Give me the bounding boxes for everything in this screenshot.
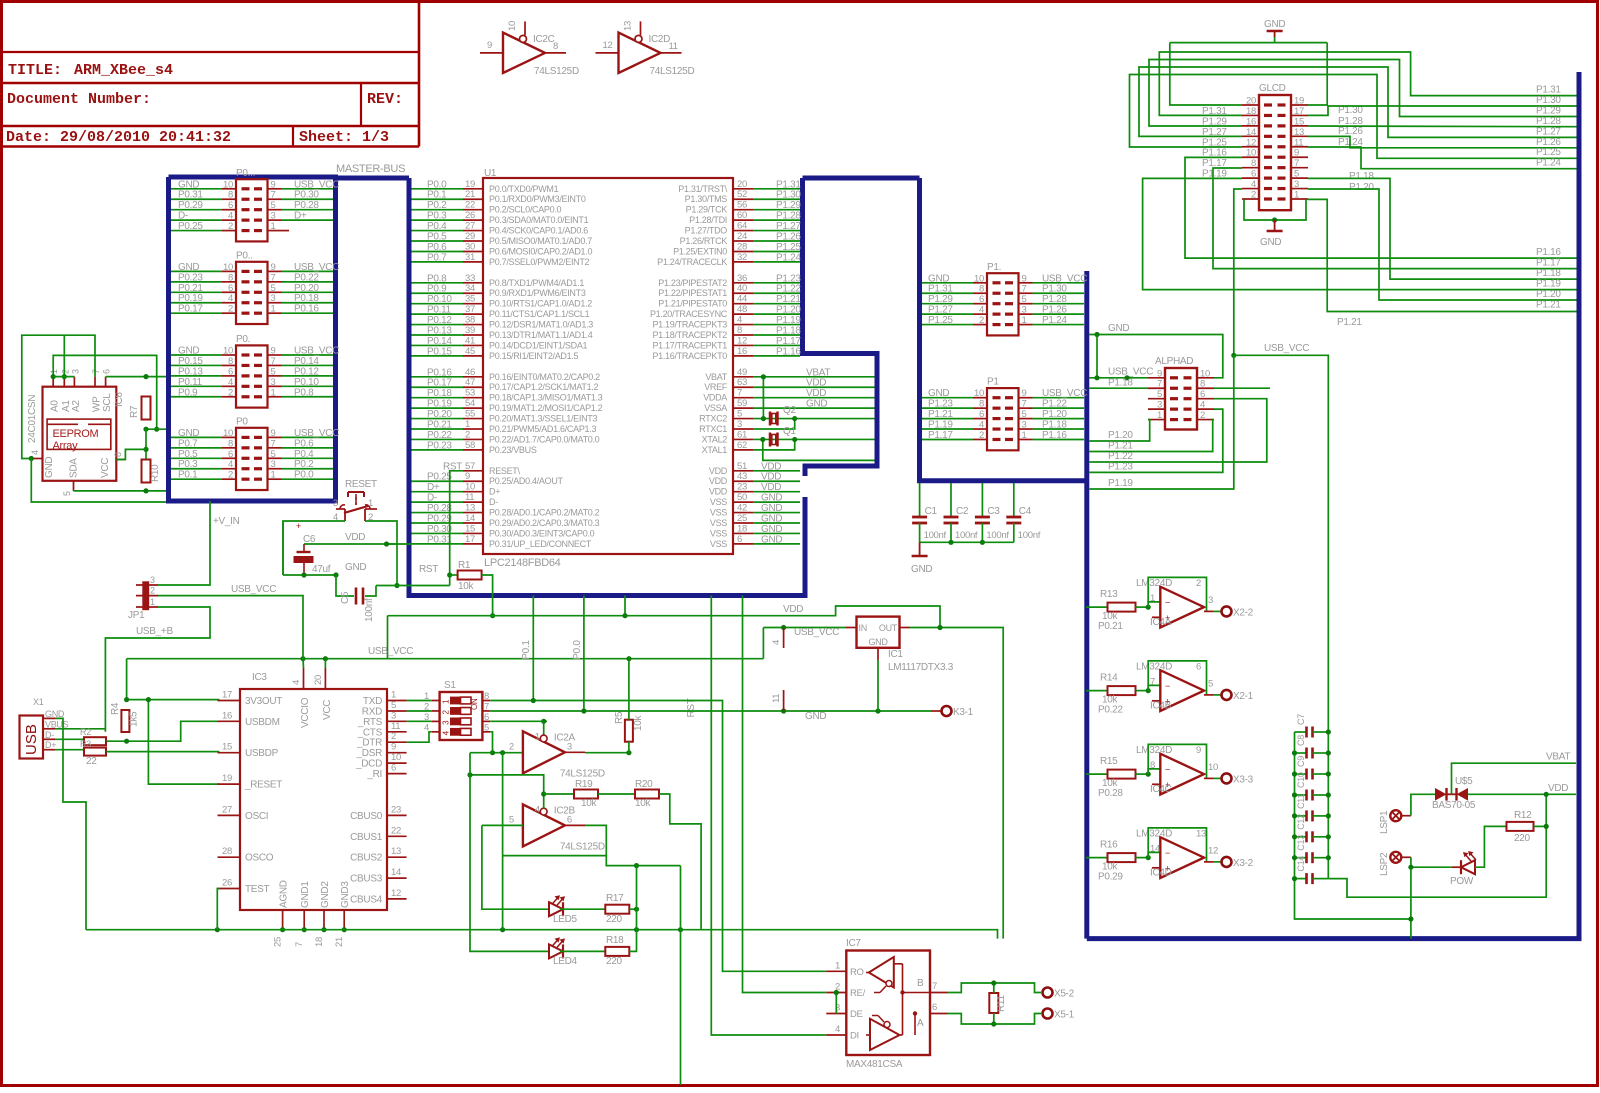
- svg-text:VSS: VSS: [710, 508, 727, 518]
- LED POW pointing left: [1461, 860, 1475, 874]
- svg-text:VCCIO: VCCIO: [300, 697, 311, 728]
- connector ALPHAD 10-pin: [1165, 368, 1197, 430]
- wire IC2B output jog down: [565, 824, 585, 826]
- svg-text:R7: R7: [129, 405, 140, 418]
- svg-text:9: 9: [271, 262, 276, 273]
- svg-text:_DTR: _DTR: [356, 738, 382, 749]
- svg-text:GND: GND: [928, 273, 949, 284]
- svg-text:P1.26: P1.26: [776, 232, 801, 243]
- U1 right pins group D VDD VSS: [733, 470, 753, 472]
- svg-text:USBDP: USBDP: [245, 748, 279, 759]
- wire POW row vertical to bus: [1410, 867, 1412, 938]
- wire S1 pin8 row TXD net: [490, 701, 826, 972]
- op-amp IC4A LM324D: [1136, 606, 1149, 608]
- svg-text:C4: C4: [1019, 506, 1032, 517]
- svg-text:P0.7/SSEL0/PWM2/EINT2: P0.7/SSEL0/PWM2/EINT2: [489, 257, 590, 267]
- svg-text:10: 10: [223, 262, 233, 273]
- svg-text:C7: C7: [1296, 714, 1306, 725]
- svg-text:18: 18: [314, 937, 325, 947]
- svg-text:R1: R1: [458, 560, 471, 571]
- svg-text:IC1: IC1: [888, 649, 903, 660]
- svg-text:P1.29/TCK: P1.29/TCK: [686, 205, 728, 215]
- svg-text:7: 7: [271, 438, 276, 449]
- svg-text:1: 1: [271, 221, 276, 232]
- wire VDD long row y616: [388, 606, 941, 628]
- svg-text:11: 11: [771, 694, 782, 703]
- svg-text:AGND: AGND: [279, 880, 290, 908]
- terminal X5-1: [1043, 1009, 1053, 1019]
- svg-text:P1.26: P1.26: [1536, 137, 1561, 148]
- svg-text:8: 8: [1150, 760, 1155, 771]
- svg-text:GND: GND: [928, 388, 949, 399]
- svg-text:8: 8: [1251, 158, 1256, 169]
- svg-text:P0.1: P0.1: [178, 470, 198, 481]
- svg-text:54: 54: [465, 398, 475, 409]
- svg-text:P1.24: P1.24: [1042, 315, 1067, 326]
- svg-text:IC3: IC3: [252, 672, 267, 683]
- svg-text:10: 10: [1246, 148, 1256, 159]
- wire VDD row right: [1468, 793, 1576, 795]
- svg-text:P1.20/TRACESYNC: P1.20/TRACESYNC: [650, 309, 728, 319]
- wire R4 top node to 3V3OUT: [127, 699, 220, 701]
- svg-text:P0.12: P0.12: [294, 366, 319, 377]
- svg-text:P0.23/VBUS: P0.23/VBUS: [489, 445, 537, 455]
- IC IC1 LM1117DTX3.3: [857, 617, 900, 648]
- wire R20 right to RST drop: [659, 794, 701, 930]
- svg-text:46: 46: [465, 367, 475, 378]
- svg-text:8: 8: [979, 284, 984, 295]
- svg-text:1: 1: [1022, 315, 1027, 326]
- svg-text:47uf: 47uf: [312, 564, 331, 575]
- svg-text:X3-2: X3-2: [1233, 858, 1254, 869]
- wire RXD to S1 pin2: [407, 710, 432, 712]
- svg-text:2: 2: [150, 586, 155, 596]
- svg-text:6: 6: [1251, 169, 1256, 180]
- svg-text:USB_VCC: USB_VCC: [1042, 273, 1087, 284]
- wire LSP2 to POW row: [1411, 857, 1452, 867]
- svg-text:P1.29: P1.29: [928, 294, 953, 305]
- wire DI drop from bus: [711, 596, 826, 1036]
- bus second vertical x=1087: [1084, 271, 1089, 939]
- wire LSP1 to diode anode: [1411, 794, 1436, 815]
- svg-text:P0.28: P0.28: [294, 200, 319, 211]
- svg-text:2: 2: [979, 315, 984, 326]
- svg-text:P0.29/AD0.2/CAP0.3/MAT0.3: P0.29/AD0.2/CAP0.3/MAT0.3: [489, 518, 600, 528]
- svg-text:22: 22: [465, 200, 475, 211]
- svg-text:P1.27: P1.27: [1536, 126, 1561, 137]
- svg-text:D-: D-: [178, 211, 188, 222]
- svg-text:GND1: GND1: [300, 881, 311, 908]
- svg-text:P0.29: P0.29: [1098, 872, 1123, 883]
- svg-text:1: 1: [1150, 593, 1155, 604]
- wire P1.28 row: [1308, 125, 1577, 128]
- svg-text:9: 9: [1022, 388, 1027, 399]
- svg-text:74LS125D: 74LS125D: [560, 841, 605, 852]
- svg-text:P1.28/TDI: P1.28/TDI: [689, 215, 727, 225]
- svg-text:6: 6: [1196, 662, 1201, 673]
- svg-text:6: 6: [484, 712, 489, 723]
- svg-text:A0: A0: [50, 400, 61, 412]
- svg-text:10k: 10k: [633, 714, 644, 731]
- wire cap stack bottom to VDD riser: [1328, 794, 1546, 897]
- capacitor C7: [1295, 731, 1307, 733]
- svg-text:1: 1: [271, 304, 276, 315]
- wire +V_IN from bus bottom to JP1 pin3: [158, 501, 210, 585]
- svg-text:_RI: _RI: [366, 769, 382, 780]
- svg-text:10k: 10k: [581, 798, 598, 809]
- svg-text:15: 15: [1294, 116, 1304, 127]
- svg-text:14: 14: [465, 513, 475, 524]
- svg-text:10: 10: [465, 482, 475, 493]
- svg-text:P1.27: P1.27: [776, 221, 801, 232]
- svg-text:SCL: SCL: [102, 393, 113, 412]
- resistor R17 220: [605, 905, 629, 914]
- svg-text:1: 1: [1157, 410, 1162, 421]
- svg-text:VDDA: VDDA: [703, 393, 727, 403]
- svg-text:D+: D+: [294, 211, 307, 222]
- svg-text:30: 30: [465, 241, 475, 252]
- svg-text:P1.31: P1.31: [1536, 85, 1561, 96]
- svg-text:P1.30/TMS: P1.30/TMS: [685, 194, 728, 204]
- svg-text:LPC2148FBD64: LPC2148FBD64: [484, 557, 561, 569]
- svg-text:P1.22/PIPESTAT1: P1.22/PIPESTAT1: [658, 288, 727, 298]
- svg-text:GND: GND: [761, 503, 782, 514]
- wire EEPROM A0 over to R7 net: [53, 355, 157, 429]
- terminal X2-2: [1222, 606, 1232, 616]
- svg-text:_DCD: _DCD: [355, 759, 382, 770]
- wire USB_VCC row to cap stack vertical: [1234, 355, 1329, 732]
- wire USB_VCC from JP1 pin2: [158, 596, 303, 659]
- wire VBAT from diode center tap: [1452, 763, 1577, 794]
- svg-text:P0.28: P0.28: [427, 503, 452, 514]
- svg-text:20: 20: [1246, 96, 1256, 107]
- wire GLCD pin4 long vertical: [1234, 189, 1242, 355]
- svg-text:42: 42: [737, 503, 747, 514]
- svg-text:IC2D: IC2D: [649, 34, 671, 45]
- svg-text:R20: R20: [635, 779, 653, 790]
- capacitor C8: [1295, 752, 1307, 754]
- svg-text:P0.25: P0.25: [427, 472, 452, 483]
- svg-text:36: 36: [737, 273, 747, 284]
- svg-text:OUT: OUT: [879, 623, 898, 633]
- svg-text:3: 3: [271, 211, 276, 222]
- wire RST vertical from RESET pin to R1: [450, 471, 463, 586]
- svg-text:1: 1: [1294, 189, 1299, 200]
- svg-text:4: 4: [291, 680, 302, 685]
- svg-text:GND: GND: [45, 709, 65, 719]
- svg-text:P1.19: P1.19: [928, 420, 953, 431]
- svg-text:P0.22: P0.22: [294, 272, 319, 283]
- wire VCC pin to R10 top: [116, 449, 146, 459]
- wire left long vertical to IC3 bottom row: [126, 659, 128, 700]
- svg-text:17: 17: [1294, 106, 1304, 117]
- svg-text:LM324D: LM324D: [1136, 745, 1172, 756]
- svg-text:VSS: VSS: [710, 518, 727, 528]
- svg-text:38: 38: [465, 315, 475, 326]
- svg-text:VDD: VDD: [761, 482, 781, 493]
- IC7 left pins RO RE DE DI: [826, 970, 846, 972]
- svg-text:C14: C14: [1296, 856, 1306, 872]
- svg-text:P0: P0: [236, 416, 248, 427]
- svg-text:R11: R11: [996, 995, 1007, 1012]
- svg-text:P0.5: P0.5: [427, 232, 447, 243]
- svg-text:100nf: 100nf: [955, 530, 978, 541]
- svg-text:19: 19: [1294, 96, 1304, 107]
- svg-text:10: 10: [223, 428, 233, 439]
- svg-text:P0.31/UP_LED/CONNECT: P0.31/UP_LED/CONNECT: [489, 539, 592, 549]
- svg-text:IC2C: IC2C: [533, 34, 555, 45]
- svg-text:4: 4: [1200, 400, 1205, 411]
- svg-text:3: 3: [737, 419, 742, 430]
- svg-text:GND: GND: [761, 493, 782, 504]
- wire EEPROM A0-A2 row: [53, 376, 74, 378]
- svg-text:7: 7: [91, 369, 101, 374]
- svg-text:7: 7: [294, 942, 305, 947]
- svg-text:220: 220: [606, 914, 623, 925]
- svg-text:Q2: Q2: [783, 405, 796, 416]
- svg-text:USB_VCC: USB_VCC: [1264, 343, 1309, 354]
- wire B to X5-2: [948, 983, 1042, 993]
- wire P1.25 staircase: [1130, 75, 1577, 159]
- wire IC4C output: [1204, 777, 1213, 779]
- svg-text:OSCO: OSCO: [245, 853, 274, 864]
- svg-text:P1.18: P1.18: [1349, 171, 1374, 182]
- svg-text:VDD: VDD: [345, 532, 365, 543]
- svg-text:MASTER-BUS: MASTER-BUS: [336, 163, 405, 175]
- svg-text:7: 7: [932, 981, 937, 992]
- svg-text:LSP2: LSP2: [1379, 852, 1390, 876]
- svg-text:XTAL2: XTAL2: [702, 434, 728, 444]
- wire RTS to S1 pin3: [407, 720, 432, 722]
- svg-text:LM324D: LM324D: [1136, 578, 1172, 589]
- svg-text:11: 11: [1294, 137, 1303, 148]
- svg-text:C5: C5: [340, 591, 351, 604]
- svg-text:6: 6: [979, 294, 984, 305]
- svg-text:P0.8: P0.8: [427, 273, 447, 284]
- wire SDA row to bus: [74, 490, 167, 492]
- svg-text:P0.29: P0.29: [178, 200, 203, 211]
- svg-text:USB_VCC: USB_VCC: [294, 179, 339, 190]
- svg-text:USB: USB: [23, 724, 40, 755]
- svg-text:XTAL1: XTAL1: [702, 445, 728, 455]
- svg-text:1: 1: [391, 690, 396, 701]
- svg-text:P1.20: P1.20: [776, 305, 801, 316]
- svg-text:19: 19: [465, 179, 475, 190]
- svg-text:C10: C10: [1296, 772, 1306, 788]
- svg-text:29: 29: [465, 231, 475, 242]
- svg-text:P1.29: P1.29: [1536, 105, 1561, 116]
- svg-text:P1.24: P1.24: [1536, 158, 1561, 169]
- svg-text:Array: Array: [53, 440, 79, 452]
- svg-text:13: 13: [1196, 829, 1206, 840]
- svg-text:9: 9: [1157, 368, 1162, 379]
- svg-text:Sheet: 1/3: Sheet: 1/3: [299, 129, 389, 146]
- svg-text:4: 4: [228, 211, 233, 222]
- svg-text:P1.28: P1.28: [776, 211, 801, 222]
- svg-text:LED4: LED4: [553, 956, 578, 967]
- svg-text:P1.26: P1.26: [1338, 126, 1363, 137]
- svg-text:+: +: [296, 521, 301, 531]
- svg-text:20: 20: [737, 179, 747, 190]
- svg-text:GND: GND: [44, 457, 55, 478]
- svg-text:3: 3: [333, 498, 338, 509]
- svg-text:P0.17/CAP1.2/SCK1/MAT1.2: P0.17/CAP1.2/SCK1/MAT1.2: [489, 382, 598, 392]
- connector P0 header 3: [236, 345, 268, 407]
- resistor R15 10k: [1086, 773, 1108, 775]
- svg-text:4: 4: [771, 640, 782, 645]
- wire IC1 OUT node: [910, 628, 1003, 939]
- wire LED5 row: [482, 825, 549, 909]
- wire VBUS to USB_+B vertical: [55, 728, 105, 730]
- svg-text:52: 52: [737, 189, 747, 200]
- svg-text:P0.5/MISO0/MAT0.1/AD0.7: P0.5/MISO0/MAT0.1/AD0.7: [489, 236, 592, 246]
- capacitor C11: [1295, 815, 1307, 817]
- svg-text:P0.23: P0.23: [178, 272, 203, 283]
- svg-text:P0.13: P0.13: [427, 326, 452, 337]
- svg-text:4: 4: [30, 450, 40, 455]
- svg-text:P0.21: P0.21: [1098, 621, 1123, 632]
- svg-text:_RESET: _RESET: [244, 780, 282, 791]
- svg-text:43: 43: [737, 471, 747, 482]
- svg-text:P1.21: P1.21: [776, 294, 801, 305]
- svg-text:9: 9: [391, 742, 396, 753]
- svg-text:11: 11: [391, 721, 400, 732]
- capacitors C1-C4 100nf: [919, 483, 921, 517]
- svg-text:25: 25: [273, 937, 284, 947]
- wire EEPROM GND loop: [22, 335, 95, 458]
- svg-text:P1.30: P1.30: [776, 190, 801, 201]
- svg-text:VCC: VCC: [100, 458, 111, 478]
- svg-text:P0.19/MAT1.2/MOSI1/CAP1.2: P0.19/MAT1.2/MOSI1/CAP1.2: [489, 403, 603, 413]
- capacitor stack right vertical: [1327, 732, 1329, 879]
- svg-text:P1.16: P1.16: [776, 346, 801, 357]
- svg-text:74LS125D: 74LS125D: [534, 66, 579, 77]
- svg-text:9: 9: [271, 346, 276, 357]
- svg-text:R5: R5: [614, 711, 625, 724]
- svg-text:25: 25: [737, 513, 747, 524]
- svg-text:3: 3: [391, 710, 396, 721]
- svg-text:X2-1: X2-1: [1233, 691, 1254, 702]
- svg-text:X5-1: X5-1: [1054, 1010, 1075, 1021]
- svg-text:C6: C6: [303, 534, 316, 545]
- svg-text:P0.14: P0.14: [427, 336, 452, 347]
- bus right vertical to P1 headers: [920, 178, 1087, 481]
- svg-text:P1.20: P1.20: [1042, 409, 1067, 420]
- svg-text:P0.4: P0.4: [294, 449, 314, 460]
- svg-text:2: 2: [391, 731, 396, 742]
- svg-text:C1: C1: [925, 506, 938, 517]
- U1 left pins group C P0.16-P0.23: [463, 376, 483, 378]
- svg-text:P1.18/TRACEPKT2: P1.18/TRACEPKT2: [652, 330, 727, 340]
- svg-text:11: 11: [465, 492, 474, 503]
- svg-text:R14: R14: [1100, 673, 1118, 684]
- svg-text:R2: R2: [80, 727, 91, 737]
- svg-text:P1.30: P1.30: [1536, 95, 1561, 106]
- svg-text:2: 2: [60, 369, 70, 374]
- wire IC4A feedback loop: [1148, 577, 1206, 611]
- wire D- to R4 and USBDM: [106, 721, 219, 741]
- wire row752 left to LED4 vertical: [470, 752, 493, 754]
- svg-text:P0.3/SDA0/MAT0.0/EINT1: P0.3/SDA0/MAT0.0/EINT1: [489, 215, 589, 225]
- svg-text:P1.31: P1.31: [928, 284, 953, 295]
- svg-text:9: 9: [1022, 273, 1027, 284]
- svg-text:P1.17: P1.17: [776, 336, 801, 347]
- wire GLCD bottom GND U: [1244, 199, 1306, 220]
- terminal X3-2: [1222, 857, 1232, 867]
- svg-text:GND: GND: [178, 428, 199, 439]
- svg-text:U$5: U$5: [1455, 776, 1473, 787]
- svg-text:7: 7: [1150, 677, 1155, 688]
- svg-text:62: 62: [737, 440, 747, 451]
- resistor R1 10k: [450, 574, 458, 576]
- wire IC1 GND down to GND row: [877, 660, 879, 711]
- svg-text:3: 3: [271, 459, 276, 470]
- IC IC2D 74LS125D buffer: [619, 33, 661, 73]
- svg-text:2: 2: [1251, 189, 1256, 200]
- wire R7-R10 junction vertical: [145, 429, 147, 460]
- wire XTAL group rows to bus notch: [753, 376, 875, 378]
- svg-text:P0.21: P0.21: [178, 283, 203, 294]
- svg-text:P0.8: P0.8: [294, 387, 314, 398]
- wire TEST to GND row: [217, 889, 219, 930]
- svg-text:D-: D-: [45, 730, 54, 740]
- svg-text:P1.23/PIPESTAT2: P1.23/PIPESTAT2: [658, 278, 727, 288]
- svg-text:12: 12: [1246, 137, 1256, 148]
- capacitor C12: [1295, 836, 1307, 838]
- svg-text:LSP1: LSP1: [1379, 810, 1390, 834]
- svg-text:51: 51: [737, 461, 747, 472]
- capacitor C9: [1295, 773, 1307, 775]
- svg-text:R10: R10: [150, 464, 161, 482]
- bus right rectangle top edge: [803, 176, 920, 181]
- wire USB_+B from JP1 pin1: [105, 607, 210, 732]
- IC6 EEPROM Array inner box: [47, 419, 111, 449]
- IC6 right pin 8 VCC: [116, 459, 125, 461]
- IC IC2C 74LS125D buffer: [503, 33, 545, 73]
- wire IC4D output: [1204, 861, 1213, 863]
- svg-text:R15: R15: [1100, 756, 1118, 767]
- svg-text:9: 9: [1196, 745, 1201, 756]
- svg-text:8: 8: [113, 452, 123, 457]
- svg-text:15: 15: [222, 742, 232, 753]
- svg-text:P0.22: P0.22: [1098, 705, 1123, 716]
- capacitor C5 100nf: [336, 575, 354, 596]
- wire ALPHAD pin8 right stub: [1214, 387, 1270, 389]
- svg-text:IC2A: IC2A: [554, 732, 576, 743]
- svg-text:13: 13: [623, 21, 634, 31]
- svg-text:RO: RO: [850, 967, 864, 978]
- wire P0.0 drop from bus to RXD row: [583, 596, 585, 712]
- svg-text:P0.16/EINT0/MAT0.2/CAP0.2: P0.16/EINT0/MAT0.2/CAP0.2: [489, 372, 600, 382]
- svg-text:P0.0/TXD0/PWM1: P0.0/TXD0/PWM1: [489, 184, 559, 194]
- IC IC3 FT232 body: [240, 689, 387, 910]
- svg-text:Document Number:: Document Number:: [7, 91, 151, 108]
- wire S1 pin7 row RXD-GND long row: [490, 710, 931, 712]
- svg-text:P0.3: P0.3: [178, 459, 198, 470]
- svg-text:IC7: IC7: [846, 938, 861, 949]
- svg-text:P0.20: P0.20: [294, 283, 319, 294]
- svg-text:6: 6: [228, 449, 233, 460]
- wire USB GND down to bottom row: [55, 718, 86, 929]
- svg-text:18: 18: [1246, 106, 1256, 117]
- svg-text:48: 48: [737, 304, 747, 315]
- svg-text:P0.31: P0.31: [427, 534, 452, 545]
- svg-text:2: 2: [228, 304, 233, 315]
- wire C1-C4 gnd row: [920, 541, 1014, 543]
- svg-text:1: 1: [271, 470, 276, 481]
- svg-text:CBUS1: CBUS1: [350, 832, 383, 843]
- wire GND row C6 C5: [283, 574, 336, 576]
